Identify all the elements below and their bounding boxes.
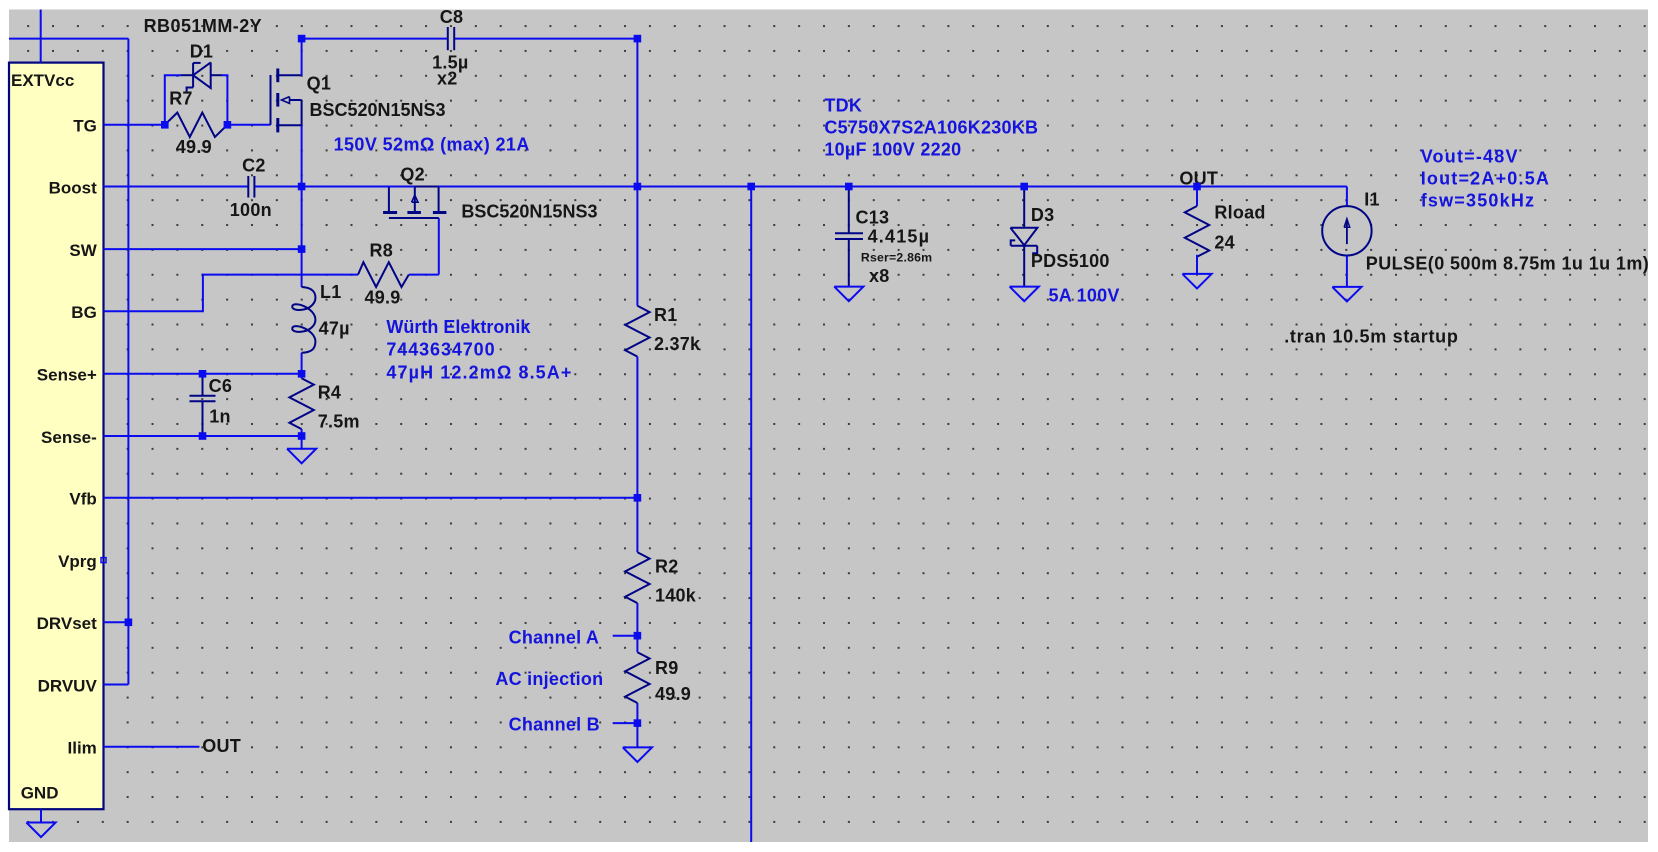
ground at Channel B [636, 723, 638, 747]
svg-text:TDK: TDK [824, 96, 862, 116]
svg-text:Ilim: Ilim [68, 739, 97, 758]
ground at C13 [834, 287, 863, 302]
wire C8 to feedback rail [454, 38, 637, 40]
node TG/R7 right junction [224, 121, 232, 129]
diode D1 symbol [181, 74, 193, 76]
wire return rail [750, 187, 752, 843]
capacitor C8 [447, 27, 449, 50]
wire Q2 gate to R8 [438, 218, 440, 275]
svg-text:100n: 100n [230, 200, 272, 220]
resistor R2 [625, 552, 649, 603]
svg-text:I1: I1 [1364, 189, 1380, 209]
ground at Sense- [301, 436, 303, 449]
svg-text:EXTVcc: EXTVcc [11, 71, 74, 90]
svg-text:Rser=2.86m: Rser=2.86m [861, 251, 932, 265]
svg-text:Vfb: Vfb [69, 490, 96, 509]
svg-text:BSC520N15NS3: BSC520N15NS3 [310, 100, 446, 120]
svg-text:L1: L1 [320, 282, 342, 302]
wire TG to R7 [104, 124, 165, 126]
svg-text:1n: 1n [209, 406, 231, 426]
svg-text:Iout=2A+0.5A: Iout=2A+0.5A [1421, 169, 1550, 189]
inductor L1 [292, 287, 315, 353]
svg-text:7.5m: 7.5m [318, 412, 360, 432]
svg-text:47µ: 47µ [319, 318, 350, 338]
node Vfb junction [634, 494, 642, 502]
diode D1 RB051MM-2Y loop wires [165, 75, 181, 125]
wire SW rail vertical (Q1 source to L1) [301, 125, 303, 287]
svg-text:TG: TG [73, 117, 97, 136]
node R4 top junction [298, 370, 306, 378]
node Rload junction [1193, 183, 1201, 191]
svg-text:C8: C8 [440, 7, 464, 27]
wire L1 to Sense+ [301, 353, 303, 374]
svg-text:2.37k: 2.37k [654, 334, 701, 354]
node OUT/return-rail junction [747, 183, 755, 191]
resistor Rload [1196, 187, 1198, 207]
node Channel B junction [634, 719, 642, 727]
node Boost/SW-rail junction [298, 183, 306, 191]
wire Sense+ pin [104, 373, 302, 375]
resistor R8 [358, 262, 409, 287]
diode D3 PDS5100 [1023, 187, 1025, 228]
IC U1 (controller) body [9, 63, 104, 810]
wire DRV rail vertical [127, 39, 129, 685]
svg-text:RB051MM-2Y: RB051MM-2Y [144, 16, 263, 36]
svg-text:x8: x8 [869, 266, 890, 286]
svg-text:Sense-: Sense- [41, 428, 97, 447]
node DRVset junction [125, 619, 133, 627]
svg-text:OUT: OUT [202, 736, 241, 756]
svg-text:R4: R4 [318, 383, 342, 403]
svg-text:Sense+: Sense+ [37, 366, 97, 385]
resistor R9 [625, 652, 649, 703]
svg-text:10µF 100V 2220: 10µF 100V 2220 [824, 140, 961, 160]
svg-text:C2: C2 [242, 156, 266, 176]
svg-text:D3: D3 [1031, 205, 1055, 225]
svg-text:49.9: 49.9 [365, 287, 401, 307]
wire C2 to OUT rail [255, 186, 1347, 188]
svg-text:Boost: Boost [49, 178, 98, 197]
node Channel A junction [634, 632, 642, 640]
wire Vfb pin [104, 497, 638, 499]
wire R9 to Channel B [636, 703, 638, 723]
wire feedback rail upper [636, 39, 638, 306]
capacitor C6 [202, 374, 204, 396]
node C6 bottom junction [199, 432, 207, 440]
svg-text:C6: C6 [209, 376, 233, 396]
svg-text:Rload: Rload [1214, 203, 1265, 223]
wire EXTVcc top feed [40, 10, 42, 63]
resistor R4 [301, 374, 303, 379]
svg-text:fsw=350kHz: fsw=350kHz [1421, 191, 1536, 211]
pin Vprg open square [101, 558, 106, 563]
svg-text:150V 52mΩ (max) 21A: 150V 52mΩ (max) 21A [334, 134, 530, 154]
svg-text:PULSE(0 500m 8.75m 1u 1u 1m): PULSE(0 500m 8.75m 1u 1u 1m) [1366, 254, 1649, 274]
resistor R7 [165, 113, 228, 137]
svg-text:.tran 10.5m startup: .tran 10.5m startup [1284, 326, 1458, 346]
wire Channel A stub [613, 635, 638, 637]
svg-text:4.415µ: 4.415µ [868, 227, 931, 247]
svg-text:Channel A: Channel A [509, 627, 600, 647]
wire Boost pin to C2 [104, 186, 249, 188]
svg-text:Vout=-48V: Vout=-48V [1421, 147, 1519, 167]
wire Ilim to OUT label [104, 746, 200, 748]
svg-text:140k: 140k [655, 585, 697, 605]
node SW junction [298, 245, 306, 253]
node OUT/feedback junction [634, 183, 642, 191]
node D3 junction [1020, 183, 1028, 191]
wire feedback rail R1-Vfb-R2 [636, 357, 638, 553]
wire BG pin [104, 275, 359, 312]
svg-text:Vprg: Vprg [58, 552, 97, 571]
svg-text:7443634700: 7443634700 [386, 340, 495, 360]
svg-text:SW: SW [69, 241, 97, 260]
svg-text:AC injection: AC injection [495, 669, 603, 689]
svg-text:R1: R1 [654, 305, 678, 325]
node C13 junction [845, 183, 853, 191]
wire Q1 drain up [301, 39, 303, 76]
resistor R1 [625, 306, 649, 357]
svg-text:Channel B: Channel B [509, 714, 600, 734]
wire Sense- pin [104, 435, 302, 437]
svg-text:C5750X7S2A106K230KB: C5750X7S2A106K230KB [824, 117, 1038, 137]
capacitor C2 [247, 176, 249, 198]
node C8-rail corner [634, 35, 642, 43]
svg-text:R9: R9 [655, 658, 679, 678]
svg-text:R2: R2 [655, 556, 679, 576]
wire Channel B stub [613, 722, 638, 724]
svg-text:C13: C13 [856, 208, 890, 228]
wire input rail top-left [9, 38, 128, 40]
wire R2 to Channel A [636, 603, 638, 652]
mosfet Q1 BSC520N15NS3 [270, 75, 272, 125]
wire DRVset [104, 621, 129, 623]
svg-text:PDS5100: PDS5100 [1031, 251, 1110, 271]
wire DRVUV [104, 684, 129, 686]
ground at D3 [1010, 287, 1039, 302]
svg-text:GND: GND [21, 784, 59, 803]
svg-text:49.9: 49.9 [176, 137, 212, 157]
current source I1 [1346, 187, 1348, 207]
svg-text:R8: R8 [370, 241, 394, 261]
wire R8 right lead [409, 274, 439, 276]
ground at IC GND [40, 809, 42, 822]
node R4 bottom junction [298, 432, 306, 440]
svg-text:DRVset: DRVset [37, 614, 97, 633]
svg-text:BG: BG [71, 303, 97, 322]
svg-text:D1: D1 [190, 41, 214, 61]
svg-text:24: 24 [1214, 233, 1235, 253]
wire top rail (Q1 drain to C8) [302, 38, 448, 40]
svg-text:5A 100V: 5A 100V [1049, 285, 1120, 305]
svg-text:DRVUV: DRVUV [38, 676, 98, 695]
ground at Rload [1182, 274, 1211, 289]
capacitor C13 [848, 187, 850, 234]
svg-text:R7: R7 [169, 89, 193, 109]
svg-text:47µH 12.2mΩ 8.5A+: 47µH 12.2mΩ 8.5A+ [386, 362, 572, 382]
mosfet Q2 BSC520N15NS3 [388, 188, 390, 212]
svg-text:49.9: 49.9 [655, 684, 691, 704]
svg-text:Q2: Q2 [400, 165, 425, 185]
wire SW pin [104, 248, 302, 250]
node Q1 drain junction [298, 35, 306, 43]
ground at I1 [1332, 287, 1361, 302]
node TG/R7 left junction [161, 121, 169, 129]
wire R7 to Q1 gate [227, 124, 270, 126]
node C6 top junction [199, 370, 207, 378]
svg-text:Würth Elektronik: Würth Elektronik [386, 317, 531, 337]
svg-text:x2: x2 [437, 69, 458, 89]
svg-text:Q1: Q1 [307, 73, 332, 93]
svg-text:BSC520N15NS3: BSC520N15NS3 [461, 202, 597, 222]
